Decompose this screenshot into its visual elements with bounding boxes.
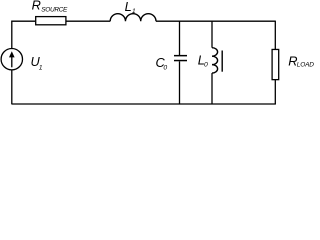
resistor R_LOAD xyxy=(272,49,279,79)
label L1 xyxy=(125,0,136,15)
wire left vertical top xyxy=(11,21,13,49)
label R_SOURCE xyxy=(32,0,68,14)
wire L0 bottom stem xyxy=(211,73,213,104)
svg-text:LOAD: LOAD xyxy=(297,62,314,69)
current source U1 xyxy=(1,49,22,70)
wire L0 top stem xyxy=(211,21,213,48)
wire right vertical bottom xyxy=(274,80,276,104)
label R_LOAD xyxy=(288,54,314,69)
label C0 xyxy=(156,55,168,72)
svg-text:R: R xyxy=(32,0,41,12)
svg-text:SOURCE: SOURCE xyxy=(41,7,68,14)
inductor L1 xyxy=(110,14,156,22)
svg-text:0: 0 xyxy=(204,61,208,68)
label L0 xyxy=(198,52,208,68)
wire right vertical top xyxy=(274,21,276,50)
inductor L0 xyxy=(212,48,218,73)
capacitor C0 xyxy=(174,56,187,61)
wire resistor to L1 xyxy=(66,20,110,22)
wire L1 to top-right corner xyxy=(156,20,275,22)
wire C0 top stem xyxy=(179,21,181,55)
inductor L0 core line xyxy=(221,51,223,72)
label U1 xyxy=(31,54,43,72)
svg-text:L: L xyxy=(125,0,132,14)
svg-text:0: 0 xyxy=(163,65,167,72)
wire top left segment xyxy=(11,20,35,22)
wire left vertical bottom xyxy=(11,70,13,104)
wire bottom xyxy=(11,103,276,105)
resistor R_SOURCE xyxy=(36,17,66,25)
wire C0 bottom stem xyxy=(179,61,181,104)
svg-text:1: 1 xyxy=(132,8,136,15)
svg-text:1: 1 xyxy=(39,65,43,72)
